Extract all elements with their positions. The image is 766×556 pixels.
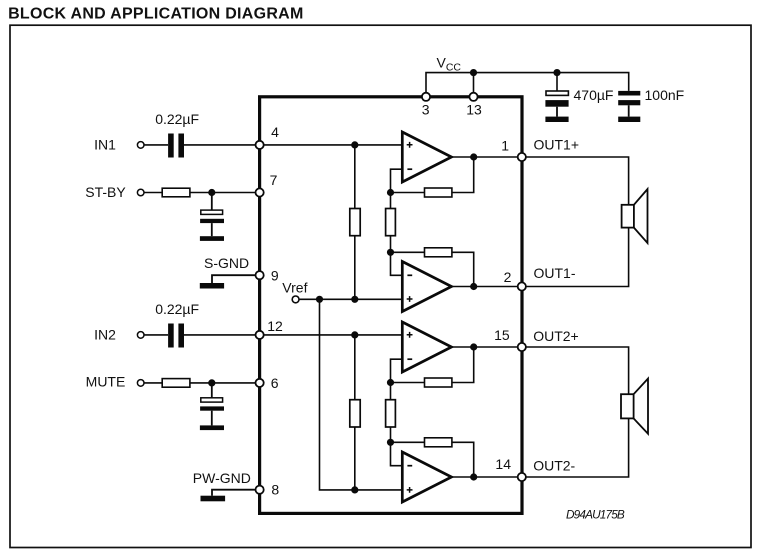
resistor R4 (vertical) [386,209,396,236]
resistor R2 (MUTE) [162,379,190,388]
capacitor C6 (MUTE, electrolytic) [201,398,223,402]
wire junction down to C6 [211,383,213,398]
pin 9 [256,271,264,279]
wire IN2 terminal to C5 [144,334,168,336]
wire R5 column lower (IN2 row to U4 + row) [354,335,356,490]
svg-text:0.22µF: 0.22µF [155,301,199,317]
junction U4 fb node [387,439,394,446]
resistor R1 (ST-BY) [162,188,190,197]
pin 7 [256,188,264,196]
junction at pin13 riser on VCC rail [470,69,477,76]
ground (S-GND) [200,283,224,289]
wire U1 - input feedback [391,169,403,192]
svg-text:13: 13 [466,101,482,117]
ground (below C6) [200,425,224,430]
terminal Vref [292,296,299,303]
wire pin 12 to op-amp U3 + input [264,334,403,336]
ground (below C3) [545,117,568,122]
resistor R7 (U1 feedback) [425,188,452,197]
wire U3 - input feedback [391,359,403,382]
resistor R8 (U2 feedback) [425,248,452,257]
svg-text:14: 14 [495,456,511,472]
speaker SP2 [621,394,634,418]
op-amp U3 [402,322,451,372]
wire U4 output to pin 14 [452,476,522,478]
pin 14 [518,473,526,481]
wire U2 - input feedback [391,252,403,275]
terminal IN2 [137,332,144,339]
wire VCC rail [426,73,629,97]
junction Vref / R3 [351,296,358,303]
pin 12 [256,331,264,339]
svg-text:OUT1-: OUT1- [534,265,576,281]
svg-text:BLOCK AND APPLICATION DIAGRAM: BLOCK AND APPLICATION DIAGRAM [8,6,304,23]
wire U1 output to pin 1 [452,156,522,158]
wire MUTE terminal to R2 [144,382,162,384]
capacitor C5 0.22uF [168,324,174,348]
svg-text:6: 6 [271,375,279,391]
junction IN1 row / R3 [351,141,358,148]
junction U1 fb node [387,189,394,196]
wire fb row U3 [391,347,474,383]
svg-text:IN2: IN2 [94,327,116,343]
svg-text:100nF: 100nF [645,87,685,103]
wire 470uF cap to VCC rail [556,73,558,91]
wire R3 column upper (IN1 row to Vref row) [354,145,356,299]
svg-text:2: 2 [504,269,512,285]
resistor R5 (vertical) [350,400,360,427]
terminal IN1 [137,142,144,149]
resistor R6 (vertical) [386,400,396,427]
svg-text:OUT1+: OUT1+ [534,137,580,153]
wire fb row U4 [391,442,474,477]
wire junction down to C2 [211,193,213,211]
wire IN1 terminal to C1 [144,144,168,146]
svg-text:MUTE: MUTE [86,374,126,390]
terminal MUTE [137,380,144,387]
junction Vref / bias column [316,296,323,303]
capacitor C4 100nF [618,91,640,96]
svg-text:4: 4 [271,124,279,140]
wire pin 8 to PW-GND ground [212,490,256,496]
junction at 470uF riser on VCC rail [553,69,560,76]
wire R4 column (U1 fb to U2 fb) [390,193,392,253]
wire R2 to pin 6 [190,382,260,384]
svg-text:3: 3 [422,101,430,117]
junction U2 output [470,283,477,290]
junction ST-BY / C2 [208,189,215,196]
svg-text:IN1: IN1 [94,137,116,153]
svg-text:7: 7 [270,172,278,188]
pin 6 [256,379,264,387]
junction IN2 row / R5 [351,331,358,338]
wire ST-BY terminal to R1 [144,192,162,194]
pin 15 [518,343,526,351]
wire U2 output to pin 2 [452,286,522,288]
svg-text:PW-GND: PW-GND [193,470,251,486]
wire pin 2 to speaker SP1 bottom [526,228,629,287]
wire R1 to pin 7 [190,192,260,194]
junction MUTE / C6 [208,379,215,386]
svg-text:0.22µF: 0.22µF [155,111,199,127]
junction bias row / R5 column [351,486,358,493]
ground (PW-GND) [201,496,226,502]
wire U3 output to pin 15 [452,346,522,348]
wire U4 - input feedback [391,442,403,465]
ground (below C4) [618,117,640,122]
svg-text:OUT2+: OUT2+ [533,328,579,344]
capacitor C1 0.22uF [168,134,174,158]
pin 2 [518,282,526,290]
svg-text:D94AU175B: D94AU175B [566,507,625,521]
svg-text:Vref: Vref [282,280,307,296]
pin 8 [256,486,264,494]
resistor R3 (vertical) [350,209,360,236]
junction U1 output [470,153,477,160]
junction U4 output [470,473,477,480]
junction U2 fb node [387,249,394,256]
wire pin13 to VCC rail [473,73,475,97]
wire C5 to pin 12 [184,334,260,336]
svg-text:1: 1 [501,138,509,154]
ground (below C2) [200,236,224,241]
wire pin 9 to S-GND ground [212,275,256,283]
svg-text:8: 8 [271,482,279,498]
capacitor C2 (ST-BY, electrolytic) [201,210,223,214]
svg-text:9: 9 [271,267,279,283]
IC block U1 (TDA package outline) [260,97,522,514]
wire pin 14 to speaker SP2 bottom [526,418,629,477]
pin 1 [518,153,526,161]
svg-text:OUT2-: OUT2- [533,458,575,474]
resistor R10 (U4 feedback) [425,438,452,447]
pin 4 [256,141,264,149]
op-amp U2 [402,262,451,312]
pin 13 [469,93,477,101]
terminal ST-BY [137,189,144,196]
wire fb row U2 [391,252,474,286]
wire fb row U1 [391,157,474,193]
wire C1 to pin 4 [184,144,260,146]
capacitor C3 470uF (electrolytic) [546,91,568,95]
wire pin 1 to speaker SP1 top [526,157,629,205]
wire pin 15 to speaker SP2 top [526,347,629,394]
svg-text:12: 12 [267,318,283,334]
wire pin 4 to op-amp U1 + input [264,144,403,146]
junction U3 fb node [387,379,394,386]
junction U3 output [470,343,477,350]
svg-text:S-GND: S-GND [204,255,249,271]
wire bias column x=319.5 (Vref to U4 + input) [320,299,403,490]
speaker SP1 [622,205,634,228]
op-amp U1 [402,132,451,182]
op-amp U4 [402,452,451,502]
wire R6 column (U3 fb to U4 fb) [390,383,392,443]
svg-text:470µF: 470µF [574,87,614,103]
wire Vref to op-amp U2 + input [299,298,402,300]
resistor R9 (U3 feedback) [425,378,452,387]
svg-text:ST-BY: ST-BY [85,184,126,200]
pin 3 [422,93,430,101]
svg-text:15: 15 [494,327,510,343]
